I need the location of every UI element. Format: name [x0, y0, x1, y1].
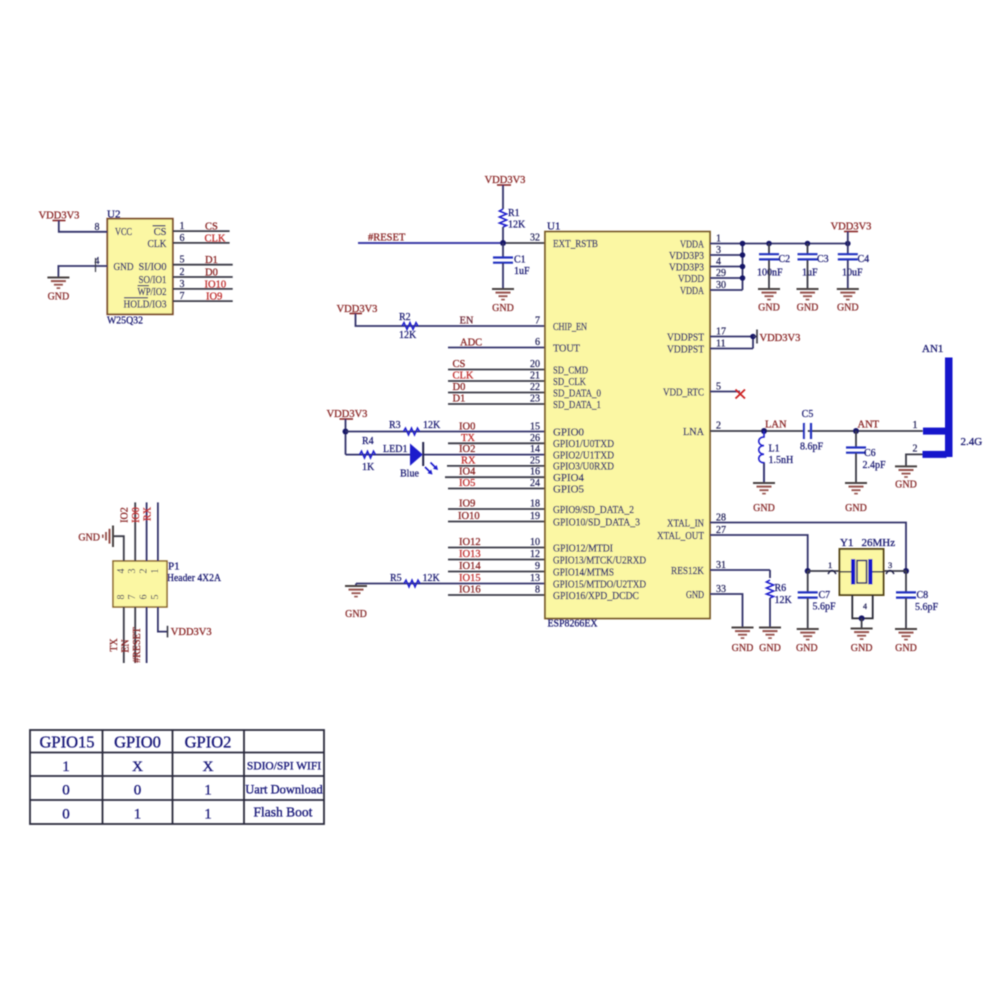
svg-text:D0: D0: [205, 268, 218, 279]
svg-text:GPIO5: GPIO5: [553, 484, 584, 495]
svg-text:VCC: VCC: [115, 227, 132, 238]
svg-text:GPIO0: GPIO0: [553, 427, 584, 438]
svg-text:33: 33: [716, 584, 726, 595]
svg-text:Flash Boot: Flash Boot: [254, 805, 313, 820]
svg-text:C4: C4: [858, 254, 870, 265]
svg-text:R4: R4: [362, 436, 374, 447]
svg-text:GPIO13/MTCK/U2RXD: GPIO13/MTCK/U2RXD: [553, 555, 646, 566]
svg-text:SO/IO1: SO/IO1: [139, 275, 167, 286]
svg-text:VDDPST: VDDPST: [667, 332, 705, 343]
svg-text:XTAL_OUT: XTAL_OUT: [657, 531, 705, 542]
svg-text:D1: D1: [453, 394, 466, 405]
svg-text:LED1: LED1: [383, 444, 407, 455]
svg-text:GPIO15: GPIO15: [39, 733, 94, 752]
svg-text:3: 3: [716, 245, 721, 256]
svg-text:X: X: [132, 759, 143, 775]
svg-text:ESP8266EX: ESP8266EX: [548, 618, 598, 630]
svg-text:SD_CMD: SD_CMD: [553, 365, 588, 376]
svg-text:6: 6: [180, 233, 185, 244]
svg-text:26: 26: [530, 433, 540, 444]
svg-text:IO10: IO10: [205, 279, 227, 290]
svg-text:RX: RX: [142, 506, 153, 521]
svg-text:D1: D1: [205, 255, 218, 266]
svg-text:R1: R1: [508, 208, 520, 219]
svg-text:VDD3P3: VDD3P3: [669, 251, 704, 262]
svg-text:GPIO0: GPIO0: [114, 733, 161, 752]
svg-text:2.4G: 2.4G: [961, 436, 983, 448]
svg-text:ANT: ANT: [858, 420, 880, 431]
svg-text:2.4pF: 2.4pF: [863, 460, 887, 471]
svg-text:VDDA: VDDA: [680, 286, 704, 297]
svg-text:IO9: IO9: [206, 292, 222, 303]
svg-text:C5: C5: [802, 409, 814, 420]
svg-text:11: 11: [716, 339, 726, 350]
svg-text:IO12: IO12: [459, 537, 481, 548]
svg-text:AN1: AN1: [922, 343, 943, 355]
svg-text:8: 8: [95, 222, 100, 233]
svg-text:18: 18: [530, 499, 540, 510]
svg-text:9: 9: [535, 561, 540, 572]
svg-text:GPIO3/U0RXD: GPIO3/U0RXD: [553, 462, 614, 473]
svg-text:Uart Download: Uart Download: [245, 783, 323, 797]
svg-text:C1: C1: [514, 255, 526, 266]
svg-text:29: 29: [716, 268, 726, 279]
svg-text:1: 1: [134, 807, 142, 823]
svg-text:2: 2: [139, 569, 150, 574]
svg-text:TX: TX: [109, 638, 120, 652]
svg-text:19: 19: [530, 511, 540, 522]
svg-text:0: 0: [62, 807, 70, 823]
svg-text:28: 28: [716, 513, 726, 524]
svg-text:C8: C8: [917, 590, 929, 601]
svg-text:WP/IO2: WP/IO2: [138, 287, 167, 298]
svg-text:IO10: IO10: [458, 511, 480, 522]
svg-text:12: 12: [530, 549, 540, 560]
svg-text:12K: 12K: [775, 595, 793, 606]
svg-text:1: 1: [828, 560, 832, 570]
svg-text:VDD3V3: VDD3V3: [171, 627, 212, 638]
svg-text:1uF: 1uF: [802, 268, 818, 279]
svg-text:GND: GND: [845, 503, 867, 514]
svg-text:TOUT: TOUT: [553, 343, 581, 354]
svg-text:GPIO10/SD_DATA_3: GPIO10/SD_DATA_3: [553, 517, 640, 528]
svg-text:P1: P1: [168, 561, 180, 573]
svg-text:SD_DATA_1: SD_DATA_1: [553, 400, 601, 411]
svg-text:3: 3: [127, 569, 138, 574]
svg-text:L1: L1: [769, 444, 780, 455]
svg-text:#RESET: #RESET: [368, 233, 406, 244]
svg-text:24: 24: [530, 478, 540, 489]
svg-text:IO16: IO16: [459, 585, 481, 596]
svg-text:GND: GND: [345, 609, 367, 620]
svg-text:GND: GND: [851, 643, 873, 654]
svg-text:3: 3: [180, 279, 185, 290]
svg-text:GPIO4: GPIO4: [553, 473, 585, 484]
svg-text:Blue: Blue: [400, 469, 419, 480]
svg-text:8.6pF: 8.6pF: [800, 442, 824, 453]
svg-text:GND: GND: [78, 533, 100, 544]
svg-text:VDDPST: VDDPST: [667, 344, 705, 355]
svg-text:IO0: IO0: [459, 422, 475, 433]
svg-text:D0: D0: [453, 382, 466, 393]
svg-text:1: 1: [204, 783, 212, 799]
svg-text:1.5nH: 1.5nH: [769, 455, 794, 466]
svg-text:CS: CS: [154, 227, 167, 238]
svg-text:0: 0: [62, 783, 70, 799]
svg-text:16: 16: [530, 467, 540, 478]
svg-text:XTAL_IN: XTAL_IN: [667, 518, 704, 529]
svg-text:5: 5: [716, 382, 721, 393]
svg-text:13: 13: [530, 573, 540, 584]
svg-text:6: 6: [535, 337, 540, 348]
svg-text:#RESET: #RESET: [132, 627, 143, 663]
svg-text:VDDD: VDDD: [678, 274, 704, 285]
svg-text:32: 32: [530, 233, 540, 244]
svg-text:C3: C3: [817, 254, 829, 265]
svg-text:R3: R3: [389, 420, 401, 431]
svg-text:1: 1: [150, 569, 161, 574]
svg-text:LNA: LNA: [683, 427, 704, 438]
svg-text:10uF: 10uF: [842, 268, 863, 279]
svg-text:1uF: 1uF: [514, 266, 530, 277]
svg-text:27: 27: [716, 525, 726, 536]
svg-text:IO2: IO2: [459, 444, 475, 455]
svg-text:GND: GND: [895, 643, 917, 654]
svg-text:10: 10: [530, 537, 540, 548]
svg-text:12K: 12K: [508, 220, 526, 231]
svg-text:R6: R6: [775, 583, 787, 594]
svg-text:GPIO14/MTMS: GPIO14/MTMS: [553, 567, 614, 578]
svg-text:U1: U1: [547, 221, 560, 233]
svg-text:SI/IO0: SI/IO0: [139, 262, 167, 273]
svg-text:8: 8: [535, 585, 540, 596]
svg-text:1: 1: [180, 221, 185, 232]
svg-text:C2: C2: [779, 254, 791, 265]
svg-text:TX: TX: [461, 433, 475, 444]
svg-text:CLK: CLK: [148, 239, 167, 250]
svg-text:GND: GND: [895, 480, 917, 491]
svg-text:VDD3V3: VDD3V3: [760, 333, 801, 344]
svg-text:IO13: IO13: [459, 549, 481, 560]
svg-text:CS: CS: [453, 359, 466, 370]
svg-text:SDIO/SPI WIFI: SDIO/SPI WIFI: [247, 761, 321, 773]
svg-text:X: X: [203, 759, 214, 775]
svg-text:C6: C6: [864, 448, 876, 459]
svg-text:4: 4: [116, 569, 127, 574]
svg-text:2: 2: [716, 421, 721, 432]
svg-text:31: 31: [716, 560, 726, 571]
svg-text:15: 15: [530, 422, 540, 433]
svg-text:5.6pF: 5.6pF: [813, 602, 837, 613]
svg-text:12K: 12K: [399, 330, 417, 341]
svg-text:HOLD/IO3: HOLD/IO3: [124, 300, 167, 311]
svg-text:SD_CLK: SD_CLK: [553, 377, 586, 388]
svg-text:VDDA: VDDA: [680, 239, 704, 250]
svg-text:IO15: IO15: [459, 573, 481, 584]
svg-text:GPIO16/XPD_DCDC: GPIO16/XPD_DCDC: [553, 591, 639, 602]
svg-text:GPIO12/MTDI: GPIO12/MTDI: [553, 543, 613, 554]
svg-text:CLK: CLK: [453, 371, 474, 382]
svg-text:4: 4: [716, 257, 721, 268]
svg-text:14: 14: [530, 444, 540, 455]
svg-text:8: 8: [116, 595, 127, 600]
svg-text:EN: EN: [121, 639, 132, 652]
svg-text:RES12K: RES12K: [671, 566, 704, 577]
svg-text:GND: GND: [759, 643, 781, 654]
svg-text:SD_DATA_0: SD_DATA_0: [553, 388, 601, 399]
svg-text:GND: GND: [837, 303, 859, 314]
svg-text:12K: 12K: [423, 420, 441, 431]
svg-text:0: 0: [134, 783, 142, 799]
svg-text:22: 22: [530, 382, 540, 393]
svg-text:GND: GND: [797, 303, 819, 314]
svg-text:7: 7: [127, 595, 138, 600]
svg-text:Header 4X2A: Header 4X2A: [167, 572, 221, 584]
svg-text:GND: GND: [48, 292, 70, 303]
svg-text:Y1: Y1: [840, 537, 853, 549]
svg-text:R5: R5: [390, 573, 402, 584]
svg-text:26MHz: 26MHz: [862, 537, 896, 549]
svg-text:1K: 1K: [362, 462, 375, 473]
svg-text:3: 3: [888, 560, 892, 570]
svg-text:RX: RX: [461, 455, 476, 466]
svg-text:CLK: CLK: [205, 233, 226, 244]
svg-text:GPIO2/U1TXD: GPIO2/U1TXD: [553, 450, 614, 461]
svg-text:IO0: IO0: [131, 507, 142, 523]
svg-text:GND: GND: [492, 303, 514, 314]
svg-text:30: 30: [716, 280, 726, 291]
svg-text:IO5: IO5: [459, 478, 475, 489]
svg-text:5: 5: [180, 255, 185, 266]
svg-text:GND: GND: [686, 590, 704, 601]
svg-text:GND: GND: [114, 262, 134, 273]
svg-text:IO2: IO2: [120, 507, 131, 523]
svg-text:GPIO1/U0TXD: GPIO1/U0TXD: [553, 439, 614, 450]
svg-text:CHIP_EN: CHIP_EN: [553, 322, 587, 333]
svg-text:1: 1: [62, 759, 70, 775]
svg-text:23: 23: [530, 394, 540, 405]
svg-text:LAN: LAN: [765, 420, 787, 431]
svg-text:GPIO2: GPIO2: [185, 733, 232, 752]
svg-text:6: 6: [139, 595, 150, 600]
svg-text:12K: 12K: [423, 573, 441, 584]
svg-text:ADC: ADC: [460, 338, 482, 349]
svg-text:7: 7: [180, 291, 185, 302]
svg-text:W25Q32: W25Q32: [107, 315, 143, 327]
svg-text:GPIO15/MTDO/U2TXD: GPIO15/MTDO/U2TXD: [553, 579, 646, 590]
svg-text:25: 25: [530, 455, 540, 466]
svg-text:EN: EN: [460, 316, 474, 327]
svg-text:CS: CS: [205, 222, 218, 233]
svg-text:100nF: 100nF: [757, 268, 783, 279]
svg-text:2: 2: [913, 444, 918, 455]
svg-text:IO4: IO4: [459, 467, 476, 478]
svg-text:7: 7: [535, 316, 540, 327]
svg-text:GPIO9/SD_DATA_2: GPIO9/SD_DATA_2: [553, 505, 634, 516]
svg-text:17: 17: [716, 327, 726, 338]
svg-text:GND: GND: [796, 643, 818, 654]
svg-text:1: 1: [204, 807, 212, 823]
svg-text:VDD_RTC: VDD_RTC: [663, 387, 704, 398]
svg-text:IO9: IO9: [459, 499, 475, 510]
svg-text:20: 20: [530, 359, 540, 370]
svg-text:21: 21: [530, 371, 540, 382]
svg-text:R2: R2: [399, 312, 411, 323]
svg-text:5.6pF: 5.6pF: [915, 602, 939, 613]
svg-text:IO14: IO14: [459, 561, 481, 572]
svg-text:U2: U2: [107, 209, 120, 221]
svg-text:4: 4: [863, 602, 867, 611]
svg-text:GND: GND: [758, 303, 780, 314]
svg-text:1: 1: [716, 234, 721, 245]
svg-text:5: 5: [150, 595, 161, 600]
svg-text:C7: C7: [819, 590, 831, 601]
svg-text:VDD3P3: VDD3P3: [669, 262, 704, 273]
svg-text:GND: GND: [753, 503, 775, 514]
svg-text:EXT_RSTB: EXT_RSTB: [553, 239, 598, 250]
svg-text:2: 2: [180, 267, 185, 278]
svg-text:GND: GND: [732, 643, 754, 654]
svg-text:1: 1: [913, 420, 918, 431]
